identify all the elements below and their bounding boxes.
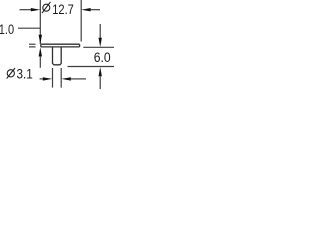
arrowhead ⌀3.1 left (points right) (43, 77, 53, 80)
dimension line 6.0 upper stem (99, 24, 101, 39)
extension dashes left of flange for 1.0 (29, 44, 36, 47)
shank (pin body) outline with chamfered tip (53, 47, 62, 64)
svg-text:6.0: 6.0 (94, 50, 111, 66)
dimension line 6.0 lower stem (99, 76, 101, 89)
dimension line ⌀3.1 right stem (70, 78, 86, 80)
arrowhead ⌀3.1 right (points left) (61, 77, 71, 80)
flange (head) outline (41, 44, 80, 47)
extension line left of dim 12.7 (vertical, shared with 1.0 dim line) (39, 0, 41, 44)
svg-text:1.0: 1.0 (0, 22, 14, 38)
extension line right of dim 12.7 (vertical) (80, 0, 82, 42)
label ⌀12.7 diameter symbol (42, 2, 50, 13)
extension line ⌀3.1 left (vertical below shank) (52, 68, 54, 88)
svg-text:3.1: 3.1 (17, 67, 33, 83)
leader line for 1.0 (18, 27, 40, 29)
extension line ⌀3.1 right (vertical below shank) (60, 68, 62, 88)
arrowhead ⌀12.7 left (points right) (31, 8, 41, 11)
arrowhead ⌀12.7 right (points left) (81, 8, 91, 11)
dimension line ⌀12.7 left stem (20, 9, 32, 11)
dimension line ⌀3.1 left stem (40, 78, 44, 80)
arrowhead 1.0 upper (points down at flange top) (39, 35, 42, 44)
label ⌀3.1 diameter symbol (7, 68, 15, 79)
extension line 6.0 upper (horizontal from flange bottom) (83, 46, 114, 48)
dimension stem below 1.0 lower arrowhead (39, 56, 41, 68)
svg-text:12.7: 12.7 (52, 2, 74, 18)
extension line 6.0 lower (horizontal from shank tip) (68, 66, 115, 68)
arrowhead 1.0 lower (points up at flange bottom) (39, 47, 42, 56)
arrowhead 6.0 upper (points down) (99, 38, 102, 47)
arrowhead 6.0 lower (points up) (99, 67, 102, 76)
dimension line ⌀12.7 right stem (90, 9, 100, 11)
